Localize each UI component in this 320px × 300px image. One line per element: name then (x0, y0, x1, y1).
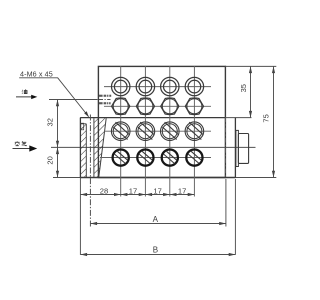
top edge extension right for 35/75 dims (225, 65, 276, 67)
bore right wall (93, 118, 95, 177)
svg-text:A: A (153, 215, 159, 224)
dim arrows at col2 (139, 193, 146, 196)
svg-text:17: 17 (153, 186, 161, 195)
dim arrows at x=80.2 (80, 193, 87, 196)
fitting box (238, 134, 248, 164)
row 2 hex plugs (hexagon + circle) (112, 98, 204, 115)
leader line to screw hole (58, 78, 89, 117)
svg-text:28: 28 (100, 186, 108, 195)
bore centerline (dash-dot) x=90 down to A dim (89, 115, 91, 227)
horizontal edge line y=117.5 across boss+block (80, 117, 225, 119)
small hatch square top-left of boss (81, 123, 84, 130)
bore left wall (85, 124, 87, 177)
tiny port note text row A (99, 95, 111, 97)
hidden right edge of block behind side plate (224, 118, 226, 178)
left dimension line (32/20) (57, 100, 59, 178)
svg-text:17: 17 (178, 186, 186, 195)
oil extension line y=99.5 (49, 99, 98, 101)
A dim line (90, 223, 226, 225)
B dim right extension (234, 179, 236, 255)
leader arrowhead (84, 111, 89, 117)
75 dim line (273, 66, 275, 177)
row centerline 1 (104, 86, 211, 88)
row 1 counterbored holes (double circles) (112, 77, 204, 95)
air arrowhead (29, 145, 37, 151)
hatch left wall of boss (81, 124, 87, 177)
svg-text:20: 20 (46, 156, 55, 164)
oil arrow line (16, 96, 34, 98)
svg-text:4-M6 x 45: 4-M6 x 45 (20, 69, 53, 78)
svg-text:B: B (153, 245, 158, 254)
svg-text:32: 32 (46, 118, 55, 126)
label oil (CJK drawn) (22, 89, 27, 93)
extension of y=117.5 line to right for 35 dim (225, 117, 251, 119)
column centerline 4 (193, 66, 195, 197)
section wedge curved boundary (99, 118, 106, 177)
fitting flange (236, 130, 239, 166)
column centerline 3 (169, 66, 171, 197)
row centerline 2 (104, 105, 211, 107)
35 dim line (250, 66, 252, 117)
counterbore step line (81, 123, 87, 125)
bottom edge extension left of boss (53, 177, 80, 179)
dim arrows at col4 (188, 193, 195, 196)
tiny port note text row B (99, 102, 111, 104)
dim arrows at col1 (114, 193, 121, 196)
bottom edge extension right for 75 dim (225, 177, 276, 179)
20 dim arrows (56, 147, 59, 154)
hatch right wedge of section (94, 118, 106, 177)
row centerline 3 (104, 130, 211, 132)
32 dim arrows (56, 100, 59, 107)
air arrow line (13, 148, 31, 150)
A dim right extension (225, 179, 227, 227)
column centerline 1 (120, 66, 122, 197)
label air (CJK drawn) (15, 141, 27, 145)
label underline (19, 77, 58, 79)
svg-text:35: 35 (239, 84, 248, 92)
row 4 bold ports (thick circle + 2 slashes) (113, 150, 203, 166)
oil arrowhead (31, 95, 37, 99)
row 3 threaded ports (double circle + 2 slashes) (111, 122, 203, 141)
B dim line (80, 254, 235, 256)
side plate right edge (234, 118, 236, 178)
left boss (sectioned inlet) outline (79, 118, 81, 178)
boss left edge extension down to B dim (79, 178, 81, 255)
svg-text:17: 17 (129, 186, 137, 195)
bottom dim line 28/17/17/17 (80, 194, 194, 196)
row centerline 4 (100, 157, 211, 159)
main block outline (98, 66, 225, 177)
dim arrows at col3 (163, 193, 170, 196)
column centerline 2 (144, 66, 146, 197)
svg-text:75: 75 (262, 114, 271, 122)
horizontal centerline y=147 (air passage) (51, 146, 256, 148)
